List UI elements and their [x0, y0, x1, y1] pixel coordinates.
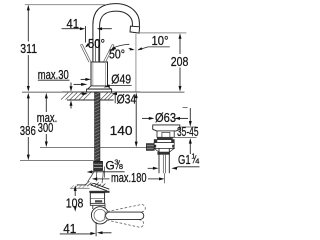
view2: lower band: [90, 203, 105, 205]
dim 35-45: extension lines: [175, 127, 197, 138]
label G1 1/4 with underline leader: [148, 151, 200, 170]
dim 41 top: extension line at lever tip: [85, 26, 87, 43]
spout outlet (mousseur): [130, 26, 140, 33]
svg-text:4: 4: [195, 157, 199, 166]
spout top extension line: [25, 4, 105, 6]
svg-text:311: 311: [20, 41, 37, 56]
50 degree arc right with arrow: [111, 44, 130, 49]
svg-text:50°: 50°: [88, 37, 105, 51]
view2: body: [90, 193, 104, 204]
dim max.300: dimension line: [45, 93, 48, 147]
escutcheon plate: [87, 89, 112, 92]
countertop hatching: [61, 93, 114, 100]
countertop surface line: [22, 91, 185, 93]
drain: body taper: [154, 148, 174, 152]
view2: handle middle position solid: [106, 212, 144, 219]
handle tilted-left phantom: [81, 44, 91, 62]
svg-text:G1: G1: [178, 153, 191, 167]
drain: collar nut: [154, 140, 174, 143]
dim 35-45: dimension line with outside arrows: [189, 108, 192, 154]
50 degree arc left with arrow: [85, 43, 90, 47]
handle upright position: [96, 40, 99, 62]
view2: spout tip reference plane with hatch: [70, 185, 90, 188]
hose nut: [94, 161, 103, 170]
dim 311: dimension line: [27, 5, 30, 92]
label max. 300 two lines: [37, 111, 58, 135]
svg-text:Ø63: Ø63: [155, 110, 176, 125]
svg-text:10°: 10°: [152, 34, 169, 48]
view2: neck to pivot: [93, 206, 105, 210]
dim D49: left arrow: [81, 78, 91, 81]
spout outlet extension line: [139, 32, 186, 34]
svg-text:50°: 50°: [109, 48, 125, 62]
drain: plug flange: [153, 125, 180, 131]
svg-text:8: 8: [119, 162, 123, 171]
view2: pivot ball inner circle: [94, 209, 106, 221]
svg-text:Ø49: Ø49: [111, 72, 131, 87]
svg-text:35-45: 35-45: [177, 125, 199, 139]
cone pointer arrow: [74, 83, 88, 86]
svg-text:140: 140: [110, 123, 133, 138]
dim 41 top: dimension line and arrows: [62, 27, 112, 30]
view2: handle lower phantom position: [104, 212, 145, 228]
dim 108: dimension line: [74, 185, 77, 211]
drain: D63 label with arrows: [142, 110, 188, 125]
svg-text:108: 108: [66, 195, 84, 210]
drain: dark band on tailpipe: [157, 152, 169, 155]
spout outer curve: [93, 4, 139, 63]
drain: side overflow tube: [146, 144, 154, 151]
view2: spout tube: [91, 183, 110, 191]
spout inner curve: [100, 11, 133, 62]
view2: spout flange band: [89, 191, 109, 193]
drain: plug skirt with square hole: [157, 131, 174, 137]
handle tilted-right phantom: [104, 44, 114, 62]
hose end reference line: [20, 160, 94, 162]
dim 140: dimension line: [135, 93, 138, 148]
view2: handle upper phantom position: [104, 204, 146, 219]
dim D49: text with underline leader and arrow: [104, 72, 132, 88]
label G 3/8 with leader: [87, 157, 125, 173]
svg-text:Ø34: Ø34: [117, 91, 137, 106]
svg-text:max.180: max.180: [111, 171, 147, 185]
countertop slab bottom line: [67, 99, 114, 101]
drain: seal band: [157, 137, 173, 139]
faucet body: [91, 62, 108, 86]
view2: pivot ball outer circle: [91, 207, 108, 224]
svg-text:208: 208: [171, 54, 189, 69]
drain: pop-up rod: [163, 155, 165, 183]
svg-text:300: 300: [38, 121, 54, 135]
label max.180 with two leader arrows: [92, 171, 165, 185]
dim max.30 arrows: [70, 83, 73, 109]
flexible hoses: [85, 167, 105, 188]
drain: waste body: [154, 143, 174, 149]
dim D34: stub, arrows and text: [81, 91, 137, 106]
dim 35-45: extension stub: [183, 107, 188, 109]
water stream: [135, 34, 137, 92]
dim 108: extension line top: [77, 184, 87, 186]
supply connection reference line: [40, 147, 152, 149]
dim 41 bottom: dimension line and arrows: [60, 231, 112, 235]
label max.30 with underline: [38, 68, 70, 82]
dim 41 bottom: extension line: [95, 222, 97, 236]
threaded shank: [95, 92, 100, 161]
dim 208: dimension line: [179, 33, 182, 91]
drain: tailpipe: [159, 149, 169, 174]
svg-text:386: 386: [20, 123, 36, 138]
dim 386: dimension line: [27, 93, 30, 160]
label 10 deg with underline leader: [129, 34, 170, 50]
body base cone: [88, 86, 111, 89]
